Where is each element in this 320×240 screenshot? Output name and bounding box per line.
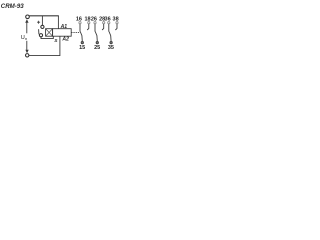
wire 26 [94, 24, 96, 32]
contact lever pole 35 [109, 32, 111, 42]
Un arrow up [25, 19, 28, 23]
contact lever pole 15 [80, 32, 82, 42]
supply terminal bottom-left [26, 54, 29, 57]
wire 38 with contact seat [115, 24, 117, 30]
wire S to coil pin [41, 36, 53, 38]
terminal 38 [116, 22, 118, 24]
terminal 25 [96, 41, 98, 43]
wire 18 with contact seat [87, 24, 89, 30]
terminal 18 [88, 22, 90, 24]
svg-text:CRM-93: CRM-93 [1, 3, 24, 10]
pushbutton lever [38, 29, 40, 34]
polarity + mark [37, 21, 40, 24]
svg-text:A2: A2 [61, 36, 69, 42]
wire 16 [79, 24, 81, 32]
terminal S upper [41, 25, 44, 28]
wire S branch drop [41, 16, 43, 26]
svg-text:15: 15 [79, 45, 85, 51]
wire left vertical upper [26, 21, 28, 34]
wire A2 riser [29, 36, 60, 55]
svg-text:18: 18 [84, 16, 90, 22]
terminal 35 [110, 41, 112, 43]
svg-text:16: 16 [76, 16, 82, 22]
terminal 36 [108, 22, 110, 24]
wire top horizontal [29, 15, 59, 17]
svg-text:36: 36 [105, 16, 111, 22]
wire A1 drop [57, 16, 59, 29]
svg-text:35: 35 [108, 45, 114, 51]
relay coil box with X [46, 29, 53, 37]
wire 28 with contact seat [102, 24, 104, 30]
terminal S lower [39, 34, 42, 37]
terminal 28 [103, 22, 105, 24]
terminal 26 [94, 22, 96, 24]
wire 36 [108, 24, 110, 32]
contact lever pole 25 [95, 32, 97, 42]
svg-text:25: 25 [94, 45, 100, 51]
terminal 15 [81, 41, 83, 43]
Un arrow down [25, 50, 28, 54]
terminal 16 [79, 22, 81, 24]
svg-text:n: n [25, 36, 27, 41]
wire left vertical lower [26, 41, 28, 52]
device box A1 [53, 29, 72, 37]
svg-text:26: 26 [91, 16, 97, 22]
supply terminal top-left [26, 15, 30, 19]
mechanical link dashed [71, 31, 79, 33]
